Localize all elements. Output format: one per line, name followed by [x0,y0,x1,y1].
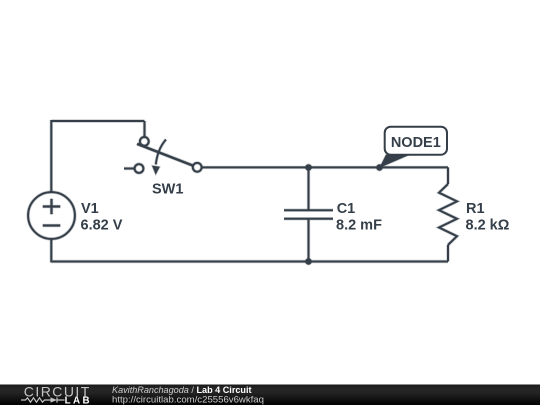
svg-text:SW1: SW1 [152,182,183,198]
svg-text:NODE1: NODE1 [391,135,441,151]
svg-text:8.2 mF: 8.2 mF [336,218,382,234]
svg-text:KavithRanchagoda / Lab 4 Circu: KavithRanchagoda / Lab 4 Circuit [112,385,252,395]
svg-text:LAB: LAB [65,395,92,405]
svg-text:C1: C1 [337,201,356,217]
svg-text:8.2 kΩ: 8.2 kΩ [466,218,510,234]
svg-text:http://circuitlab.com/c25556v6: http://circuitlab.com/c25556v6wkfaq [112,395,264,405]
svg-text:R1: R1 [466,201,485,217]
svg-text:6.82 V: 6.82 V [81,218,123,234]
svg-text:V1: V1 [81,201,99,217]
